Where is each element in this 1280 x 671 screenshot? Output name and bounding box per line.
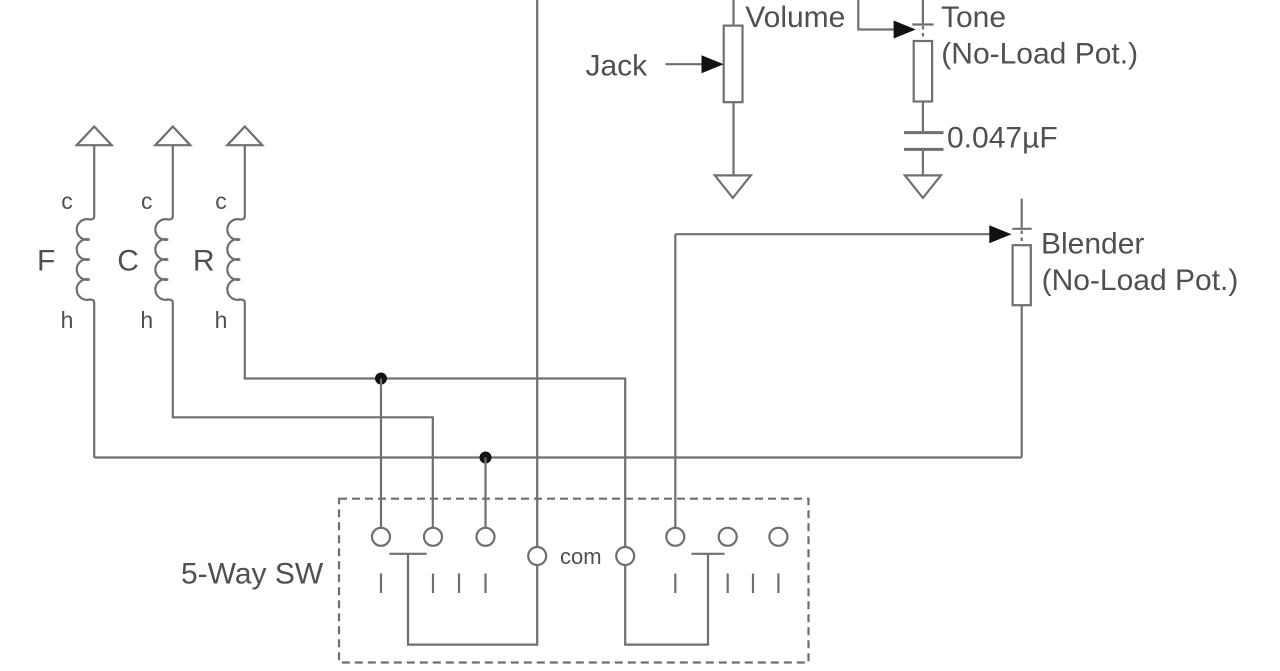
wire: blender line down to switch contact 4 <box>674 234 676 528</box>
ground (Tone capacitor) <box>905 175 941 198</box>
switch contact 5 <box>719 528 737 546</box>
pickup C arrow <box>155 127 190 146</box>
svg-text:h: h <box>215 307 228 333</box>
left wiper bar <box>389 553 426 555</box>
wire: junction to switch contact 3 <box>484 458 486 528</box>
switch left com contact <box>528 547 546 565</box>
pickup F arrow <box>77 127 112 146</box>
svg-text:C: C <box>117 245 139 278</box>
position tick 2 right <box>727 574 729 594</box>
switch contact 6 <box>769 528 787 546</box>
pickup R arrow <box>227 127 262 146</box>
switch contact 3 <box>477 528 495 546</box>
wire: junction to switch contact 1 <box>380 379 382 528</box>
wire: ground bus F bottom to Blender bottom <box>94 456 1022 458</box>
position tick 1 left <box>380 574 382 594</box>
position tick 2 left <box>432 574 434 594</box>
potentiometer Volume (body) <box>724 26 743 103</box>
position tick 1 right <box>674 574 676 594</box>
svg-text:R: R <box>193 245 215 278</box>
pickup F coil <box>77 145 94 457</box>
wire: Blender arrow line from switch vertical <box>675 233 994 235</box>
switch right com contact <box>616 547 634 565</box>
svg-text:(No-Load Pot.): (No-Load Pot.) <box>941 37 1138 70</box>
switch contact 2 <box>424 528 442 546</box>
junction dot on R wire <box>375 373 387 385</box>
wire: Blender bottom down to bus <box>1021 305 1023 457</box>
wire: long vertical from top to left com of 5-way switch <box>536 0 538 547</box>
Blender no-load crossbar <box>1012 228 1031 230</box>
junction dot on bus <box>480 452 492 464</box>
svg-text:Blender: Blender <box>1041 228 1144 261</box>
ground (Volume) <box>715 175 751 198</box>
right wiper bar <box>691 553 724 555</box>
svg-text:Volume: Volume <box>745 1 845 34</box>
wire: capacitor to ground <box>922 151 924 175</box>
svg-text:0.047µF: 0.047µF <box>947 121 1058 154</box>
wire: volume top lead from top edge <box>732 0 734 26</box>
pickup C coil <box>155 145 432 528</box>
wire: Blender top stub <box>1021 199 1023 228</box>
switch contact 1 <box>372 528 390 546</box>
left wiper link to com <box>408 554 537 645</box>
arrowhead at Blender input <box>989 225 1011 243</box>
pickup R coil <box>227 145 625 547</box>
position tick 4 left <box>484 574 486 594</box>
Tone no-load crossbar <box>912 23 933 25</box>
Tone no-load dashed segment <box>922 26 924 41</box>
svg-text:h: h <box>140 307 153 333</box>
capacitor C1 plates <box>904 131 944 134</box>
svg-text:c: c <box>141 188 153 214</box>
wire: Tone bottom to capacitor <box>922 102 924 132</box>
switch contact 4 <box>666 528 684 546</box>
svg-text:5-Way SW: 5-Way SW <box>181 558 324 591</box>
Blender no-load dashed segment <box>1021 231 1023 246</box>
svg-text:Tone: Tone <box>941 1 1006 34</box>
potentiometer Tone (body) <box>914 41 932 102</box>
wire: Volume bottom to ground <box>732 102 734 175</box>
svg-text:com: com <box>560 544 602 569</box>
wire: Jack arrow line to Volume wiper <box>666 63 705 65</box>
position tick 3 right <box>752 574 754 594</box>
svg-text:(No-Load Pot.): (No-Load Pot.) <box>1042 264 1239 297</box>
svg-text:c: c <box>215 188 227 214</box>
position tick 4 right <box>777 574 779 594</box>
svg-text:F: F <box>37 245 55 278</box>
arrowhead at Volume wiper <box>702 55 724 73</box>
arrowhead at Tone input <box>894 21 916 39</box>
wire: Volume top to Tone (L-shape with arrow) <box>858 0 896 30</box>
svg-text:Jack: Jack <box>586 50 649 83</box>
position tick 3 left <box>458 574 460 594</box>
svg-text:h: h <box>61 307 74 333</box>
potentiometer Blender (body) <box>1013 245 1031 305</box>
wire: Tone top lead from top edge <box>922 0 924 23</box>
right wiper link to com <box>625 554 708 645</box>
5-way switch dashed box <box>339 499 809 663</box>
svg-text:c: c <box>61 188 73 214</box>
